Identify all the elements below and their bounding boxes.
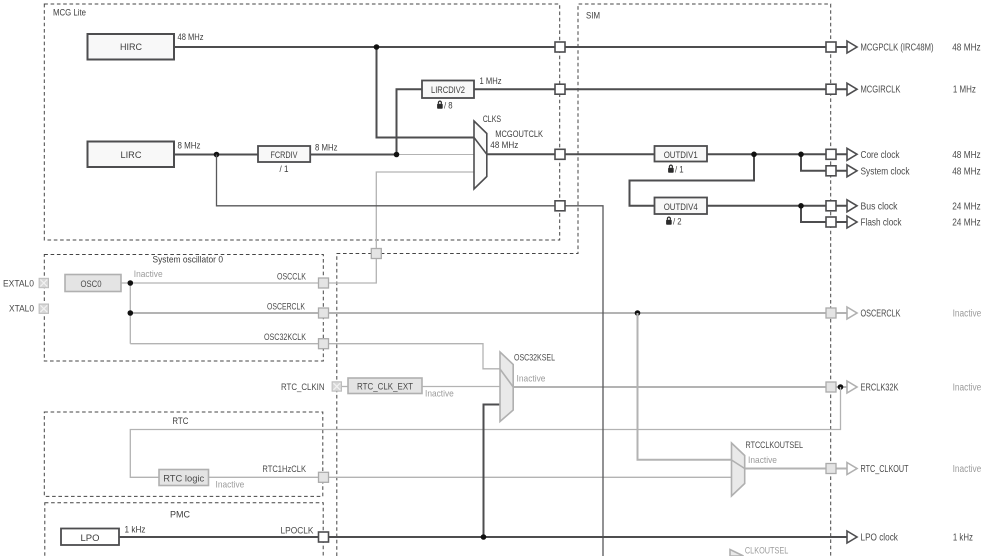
svg-text:Inactive: Inactive	[134, 269, 163, 280]
wire LPO output to LPO clock arrow	[119, 536, 847, 538]
svg-text:48 MHz: 48 MHz	[952, 43, 981, 54]
wire ERCLK32K feedback to RTC logic	[130, 387, 840, 477]
wire OUTDIV4 output to Bus clock arrow	[707, 205, 847, 207]
port SIM right OSCERCLK	[826, 308, 836, 318]
port SIM right Flash clock	[826, 217, 836, 227]
block OSC0 (inactive)	[65, 275, 121, 292]
svg-text:OUTDIV1: OUTDIV1	[664, 150, 698, 161]
svg-text:48 MHz: 48 MHz	[490, 140, 518, 151]
container SIM (L-shaped)	[337, 4, 831, 556]
svg-text:CLKOUTSEL: CLKOUTSEL	[745, 546, 788, 556]
svg-text:Inactive: Inactive	[517, 374, 546, 385]
svg-text:MCG Lite: MCG Lite	[53, 8, 86, 19]
svg-text:RTC: RTC	[172, 416, 188, 427]
wire LIRC to CLKOUTSEL (thin dark, down right side)	[217, 155, 604, 556]
block RTC logic (inactive)	[159, 470, 209, 486]
svg-text:48 MHz: 48 MHz	[952, 166, 981, 177]
wire LPO branch up to OSC32KSEL input 3	[484, 405, 501, 538]
svg-text:XTAL0: XTAL0	[9, 304, 34, 315]
block RTC_CLK_EXT (inactive)	[348, 378, 422, 394]
svg-text:24 MHz: 24 MHz	[952, 201, 981, 212]
svg-text:SIM: SIM	[586, 11, 600, 22]
arrow MCGIRCLK	[847, 83, 857, 95]
arrow Bus clock	[847, 200, 857, 212]
arrow RTC_CLKOUT	[847, 463, 857, 475]
port SIM right System clock	[826, 166, 836, 176]
junction HIRC branch	[374, 44, 380, 50]
svg-text:Inactive: Inactive	[953, 464, 982, 475]
arrow System clock	[847, 165, 857, 177]
wire branch to System clock	[801, 154, 847, 171]
svg-text:Core clock: Core clock	[861, 150, 901, 161]
svg-text:OSCERCLK: OSCERCLK	[267, 302, 305, 313]
junction OSCERCLK to RTCCLKOUTSEL branch	[635, 310, 641, 316]
arrow ERCLK32K	[847, 381, 857, 393]
block LPO	[61, 529, 119, 546]
svg-text:1 MHz: 1 MHz	[953, 85, 976, 96]
svg-text:OSCERCLK: OSCERCLK	[861, 309, 901, 320]
block LIRCDIV2	[422, 81, 474, 112]
wire RTCCLKOUTSEL output to RTC_CLKOUT arrow	[745, 468, 847, 470]
svg-text:OSC32KCLK: OSC32KCLK	[264, 332, 306, 343]
svg-text:System oscillator 0: System oscillator 0	[153, 255, 224, 266]
svg-text:RTCCLKOUTSEL: RTCCLKOUTSEL	[746, 440, 804, 451]
port SIM right ERCLK32K	[826, 382, 836, 392]
container System oscillator 0	[44, 255, 323, 362]
svg-text:48 MHz: 48 MHz	[178, 32, 204, 43]
port OSC OSC32KCLK	[319, 339, 329, 349]
svg-text:Inactive: Inactive	[953, 383, 982, 394]
wire OSC32KCLK to OSC32KSEL input 1	[130, 344, 500, 369]
svg-text:MCGIRCLK: MCGIRCLK	[861, 85, 901, 96]
arrow Flash clock	[847, 216, 857, 228]
container MCG Lite	[44, 4, 559, 240]
mux CLKOUTSEL (partial, bottom edge)	[730, 546, 788, 556]
svg-text:1 kHz: 1 kHz	[125, 525, 146, 536]
svg-text:/ 2: / 2	[673, 217, 682, 228]
svg-text:LPOCLK: LPOCLK	[281, 526, 315, 537]
svg-text:Inactive: Inactive	[425, 389, 454, 400]
svg-text:/ 1: / 1	[280, 164, 289, 175]
svg-text:RTC_CLKOUT: RTC_CLKOUT	[861, 464, 909, 475]
svg-text:PMC: PMC	[170, 510, 190, 521]
svg-text:Bus clock: Bus clock	[861, 201, 899, 212]
port SIM right MCGIRCLK	[826, 84, 836, 94]
svg-text:OSCCLK: OSCCLK	[277, 272, 306, 283]
svg-text:OSC0: OSC0	[81, 279, 102, 290]
wire RTC_CLKIN stub	[337, 386, 348, 388]
svg-text:24 MHz: 24 MHz	[952, 218, 981, 229]
wire FCRDIV output	[310, 154, 397, 156]
svg-text:EXTAL0: EXTAL0	[3, 279, 34, 290]
port MCG right HIRC	[555, 42, 565, 52]
svg-text:1 MHz: 1 MHz	[480, 76, 502, 87]
svg-text:LPO: LPO	[81, 533, 100, 544]
container PMC	[45, 503, 323, 556]
port MCG right MCGOUTCLK	[555, 149, 565, 159]
port RTC RTC1HzCLK	[319, 472, 329, 482]
svg-text:FCRDIV: FCRDIV	[271, 150, 298, 161]
arrow MCGPCLK	[847, 41, 857, 53]
svg-text:System clock: System clock	[861, 166, 911, 177]
port MCG right MCGIRCLK	[555, 84, 565, 94]
svg-text:HIRC: HIRC	[120, 42, 142, 53]
svg-text:RTC_CLK_EXT: RTC_CLK_EXT	[357, 382, 413, 393]
wire RTC_CLK_EXT to OSC32KSEL input 2	[422, 386, 500, 388]
port SIM right MCGPCLK	[826, 42, 836, 52]
block OUTDIV4	[655, 198, 708, 228]
mux CLKS	[474, 114, 544, 189]
port OSC OSCCLK	[319, 278, 329, 288]
port OSC OSCERCLK	[319, 308, 329, 318]
junction LIRC to FCRDIV branch	[214, 152, 220, 158]
svg-text:MCGOUTCLK: MCGOUTCLK	[495, 129, 543, 140]
wire CLKS output MCGOUTCLK to OUTDIV1	[487, 153, 655, 155]
container RTC	[44, 412, 323, 496]
wire junction up to LIRCDIV2	[397, 89, 423, 154]
junction LPO branch	[481, 534, 487, 540]
svg-text:8 MHz: 8 MHz	[178, 141, 201, 152]
svg-text:Inactive: Inactive	[748, 455, 777, 466]
wire LIRC thin continuation to CLKS input 2	[397, 154, 474, 156]
svg-text:OUTDIV4: OUTDIV4	[664, 202, 698, 213]
arrow OSCERCLK	[847, 307, 857, 319]
junction OUTDIV1 out	[751, 152, 757, 158]
wire OUTDIV1 output to Core clock arrow	[707, 153, 847, 155]
port SIM right Core clock	[826, 149, 836, 159]
svg-text:MCGPCLK (IRC48M): MCGPCLK (IRC48M)	[861, 43, 934, 54]
junction OSCERCLK start	[128, 310, 134, 316]
svg-text:LPO clock: LPO clock	[861, 533, 899, 544]
svg-text:LIRCDIV2: LIRCDIV2	[431, 85, 465, 96]
port MCG right LIRC-CLKOUT	[555, 201, 565, 211]
svg-text:48 MHz: 48 MHz	[952, 150, 981, 161]
junction Core/System split	[798, 152, 804, 158]
wire OSC32KSEL output to ERCLK32K arrow	[513, 386, 847, 388]
junction LIRCDIV2 takeoff	[394, 152, 400, 158]
wire HIRC output to MCGPCLK arrow	[174, 46, 847, 48]
block LIRC	[88, 142, 175, 168]
wire OSCERCLK to arrow	[130, 312, 847, 314]
wire OSCCLK to CLKS input 3	[130, 172, 474, 283]
port SIM jog OSCCLK	[371, 249, 381, 259]
port SIM right RTC_CLKOUT	[826, 464, 836, 474]
arrow Core clock	[847, 148, 857, 160]
port SIM right Bus clock	[826, 201, 836, 211]
svg-text:1 kHz: 1 kHz	[953, 533, 973, 544]
mux RTCCLKOUTSEL (inactive)	[732, 440, 804, 496]
port RTC_CLKIN (crossed)	[332, 382, 341, 391]
svg-text:/ 1: / 1	[675, 165, 684, 176]
junction ERCLK32K feedback	[838, 384, 844, 390]
svg-text:8 MHz: 8 MHz	[315, 143, 338, 154]
svg-text:Inactive: Inactive	[216, 480, 245, 491]
svg-text:RTC1HzCLK: RTC1HzCLK	[262, 464, 306, 475]
junction OSC0 out	[128, 280, 134, 286]
svg-text:CLKS: CLKS	[483, 114, 501, 125]
port XTAL0 (crossed)	[39, 304, 48, 313]
port EXTAL0 (crossed)	[39, 278, 48, 287]
wire LIRCDIV2 output to MCGIRCLK arrow	[474, 88, 847, 90]
wire OSC0 stub to junction	[121, 282, 130, 284]
wire LIRC output to FCRDIV	[174, 154, 258, 156]
svg-text:/ 8: / 8	[444, 101, 453, 112]
wire OUTDIV1 to OUTDIV4 (Z route)	[630, 154, 755, 206]
svg-text:OSC32KSEL: OSC32KSEL	[514, 353, 555, 364]
junction Bus/Flash split	[798, 203, 804, 209]
svg-text:RTC logic: RTC logic	[163, 474, 204, 485]
wire HIRC branch down to CLKS input 1	[377, 47, 475, 138]
svg-text:RTC_CLKIN: RTC_CLKIN	[281, 382, 325, 393]
arrow LPO clock	[847, 531, 857, 543]
port PMC LPOCLK	[319, 532, 329, 542]
wire OSCERCLK branch down to RTCCLKOUTSEL input 1	[638, 313, 732, 460]
svg-text:Inactive: Inactive	[953, 309, 982, 320]
svg-text:Flash clock: Flash clock	[861, 218, 903, 229]
block HIRC	[88, 34, 175, 60]
wire RTC logic output RTC1HzCLK to RTCCLKOUTSEL input 2	[209, 476, 732, 478]
wire OSC0 down branch	[129, 283, 131, 344]
block FCRDIV	[258, 146, 310, 175]
svg-text:ERCLK32K: ERCLK32K	[861, 383, 899, 394]
block OUTDIV1	[655, 146, 708, 176]
mux OSC32KSEL (inactive)	[500, 352, 555, 422]
wire branch to Flash clock	[801, 206, 847, 222]
svg-text:LIRC: LIRC	[121, 150, 142, 161]
